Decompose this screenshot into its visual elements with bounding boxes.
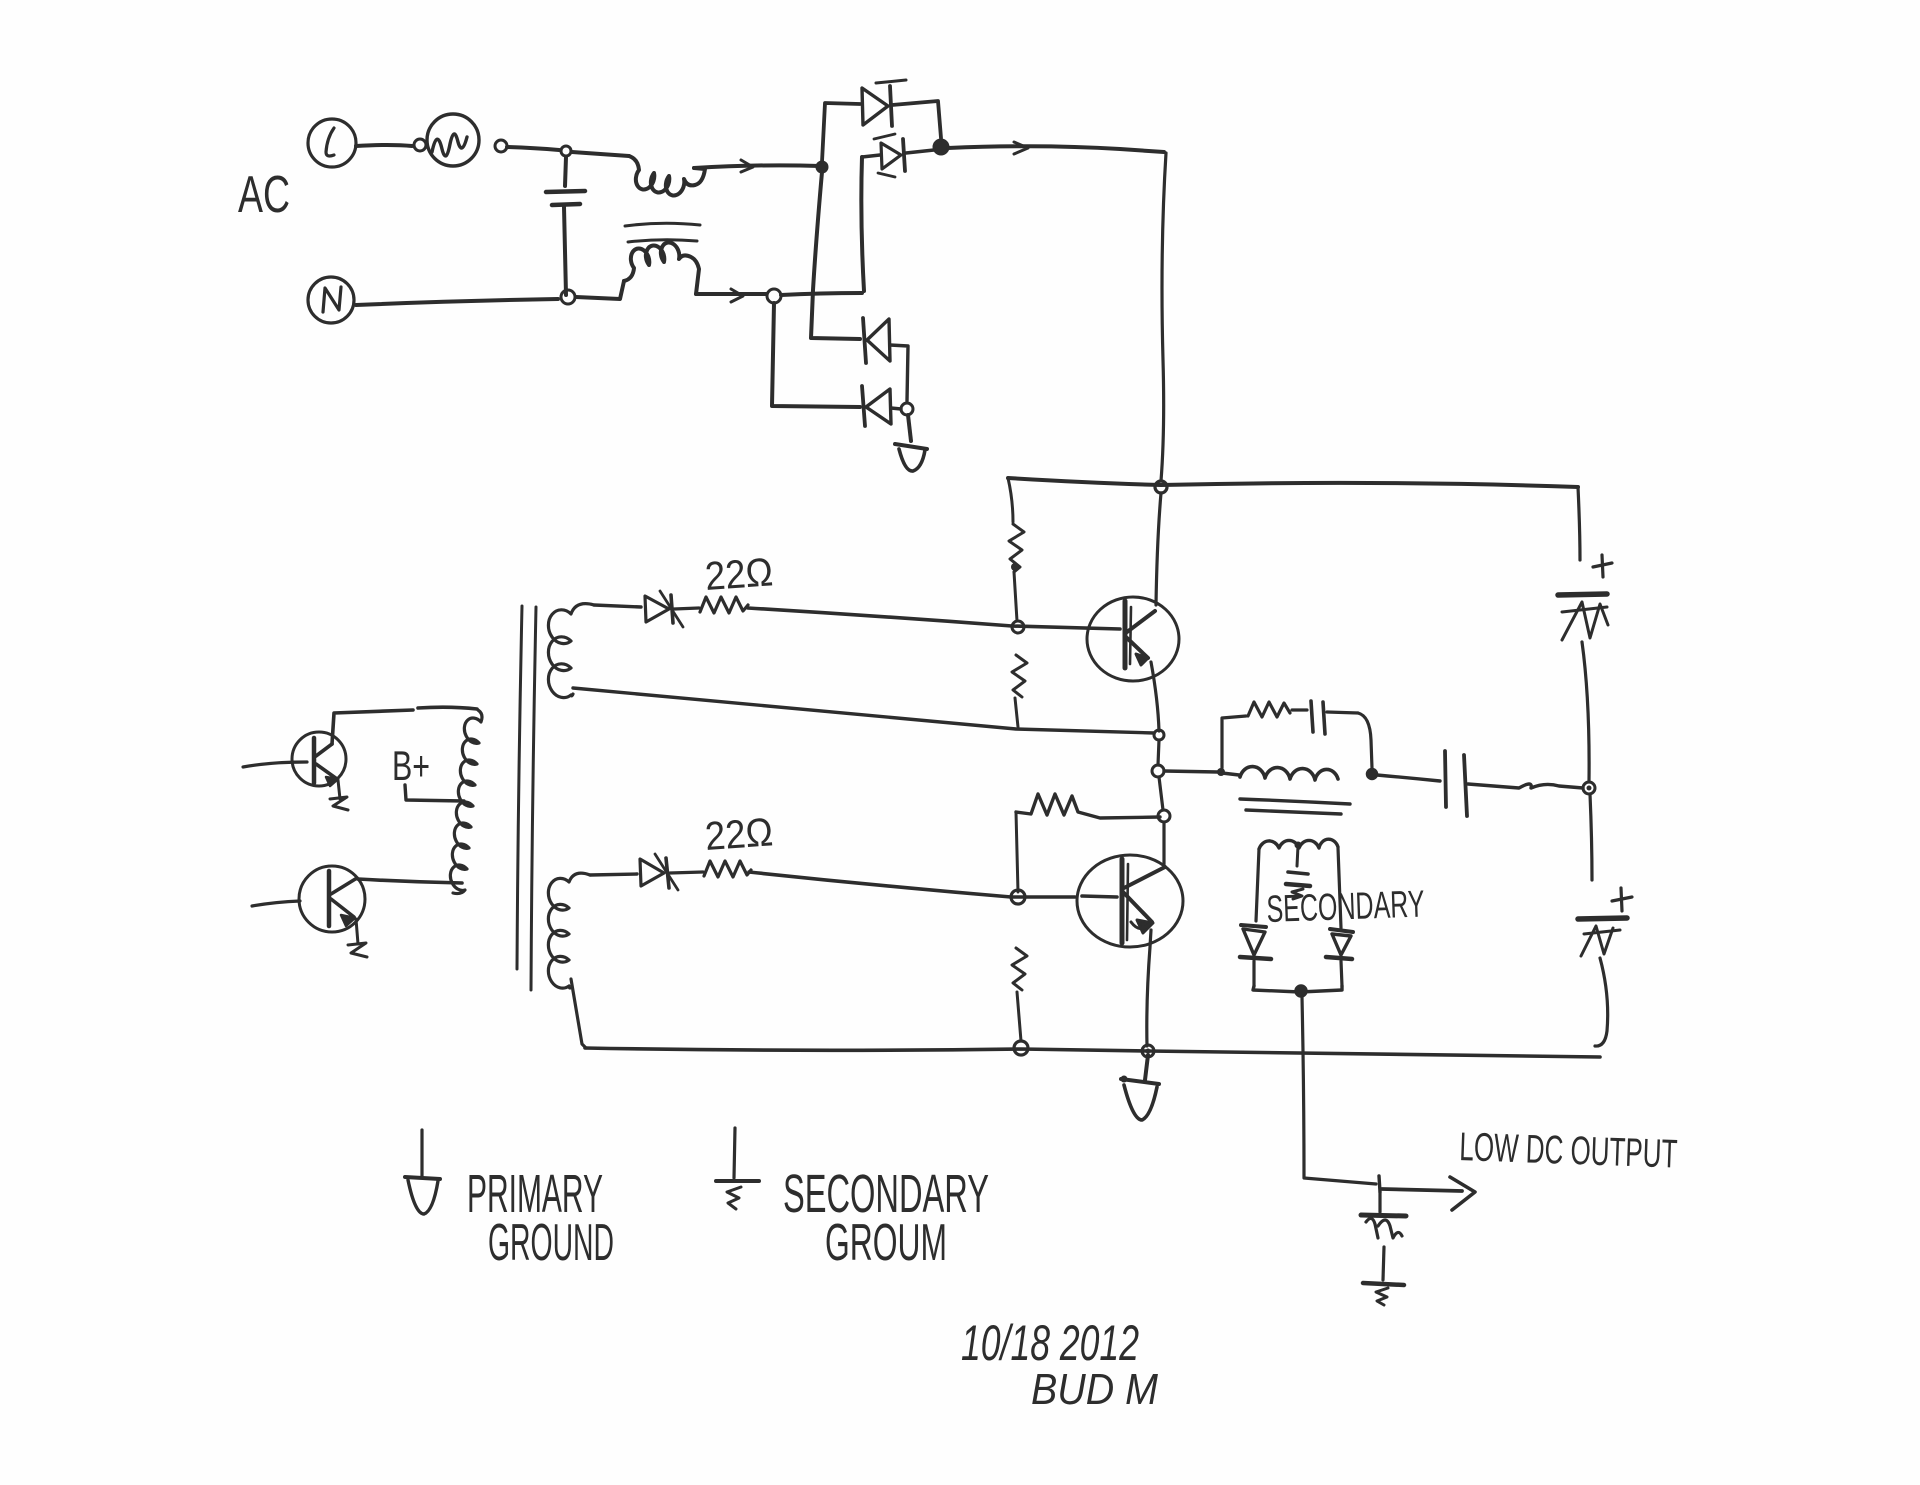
ground secondary legend symbol [716,1128,759,1209]
svg-text:10/18 2012: 10/18 2012 [961,1315,1139,1371]
transistor Q3 [292,732,348,810]
svg-text:GROUND: GROUND [488,1214,614,1272]
wire Q3 collector up and right to winding [332,707,477,744]
capacitor C4a electrolytic [1558,555,1612,782]
node Q1 base junction [1012,621,1024,633]
wire main vertical below rail [1156,493,1161,605]
wire Q4 collector to winding bottom [358,879,462,883]
wire vertical 735-770 [1158,740,1159,765]
label LOW DC OUTPUT [1459,1125,1678,1177]
diode D4 [862,386,901,426]
label SECONDARY legend [783,1164,989,1224]
wire W4 right leg [1338,848,1341,928]
wire junction to choke [572,152,629,156]
svg-text:B+: B+ [392,742,430,789]
wire main vertical bus [1161,153,1166,481]
diode D8 [1326,929,1353,986]
wire W3 top to D6 [590,874,637,875]
wire Q4 base lead [252,901,300,906]
svg-text:22Ω: 22Ω [704,810,775,859]
wire emitter Q2 down to bottom rail [1147,930,1151,1046]
capacitor C4b electrolytic [1578,794,1632,1046]
wire vertical 822-866 to Q2 collector [1162,822,1165,866]
wire D2 leg down to N wire [861,157,864,291]
svg-text:SECONDARY: SECONDARY [1266,884,1425,931]
node junction y815 [1158,810,1170,822]
resistor R3 [1016,794,1160,818]
node bridge top-left junction [817,162,827,172]
wire R2 to diagonal [1015,698,1018,727]
wire node770 to inductor [1164,768,1239,776]
label B+ [392,742,430,789]
label GROUND [488,1214,614,1272]
capacitor C1 across line [546,157,585,295]
wire DC+ to main vertical [948,146,1164,152]
node R1 bottom dot [1011,563,1019,571]
wire fuse to junction [507,147,559,150]
inductor L1 [1240,767,1338,780]
capacitor C3 snubber [1292,701,1358,734]
wire R6 to Q2 base [749,872,1117,897]
arrowhead on DC+ wire [1014,142,1028,154]
diode D6 [640,854,703,890]
wire B+ tap [405,785,464,801]
common-mode choke core [625,223,700,242]
wire choke bottom to bridge [696,292,766,296]
wire bottom rail [585,1048,1600,1057]
fuse F1 [427,114,507,166]
capacitor C2 coupling [1445,751,1583,816]
svg-text:GROUM: GROUM [825,1214,947,1272]
svg-text:LOW DC OUTPUT: LOW DC OUTPUT [1459,1125,1678,1177]
wire center tap down [1302,997,1376,1184]
node emitter bottom junction [1142,1045,1154,1057]
node Q2 base junction [1011,890,1025,904]
wire emitter Q1 down [1151,662,1159,731]
label 22ohm top [704,550,775,599]
wire up to D1 [822,103,860,162]
transformer T1 core [517,606,536,990]
resistor R7 snubber [1248,702,1290,717]
resistor R6 [704,861,751,877]
snubber right leg [1358,713,1372,768]
wire L to fuse [356,139,426,151]
node bottom rail left junction [1014,1041,1028,1055]
wire W2 bottom diagonal [573,688,1154,733]
wire vertical 777-815 [1159,777,1163,810]
transformer T2 core [1240,799,1350,814]
wire R5 to Q1 base [748,608,1120,629]
node output junction [1379,1176,1380,1192]
label 22ohm bottom [704,810,775,859]
primary winding W1 [450,710,482,894]
label GROUM [825,1214,947,1272]
wire W2 top to D5 [594,605,641,607]
wire R3 left corner down [1016,812,1018,892]
wire junction to D2 leg [781,293,862,295]
wire bridge left vertical from top junction [811,172,860,339]
common-mode choke top winding [629,156,705,195]
node right column junction [1583,782,1595,794]
label PRIMARY [467,1164,603,1224]
wire rectifier bottom [1253,986,1342,992]
wire rail corner down to R1 [1008,478,1013,522]
arrowhead on bottom wire [731,289,743,302]
wire to capacitor C2 [1377,775,1440,781]
terminal L [308,119,356,167]
transistor Q2 [1077,855,1183,947]
wire choke top to bridge [694,165,820,168]
diode D5 [645,591,699,627]
diode D1 [862,80,941,138]
diode D7 [1240,925,1271,986]
node N-side junction [767,289,781,303]
label BUD M [1031,1365,1158,1414]
W4 center tap ground [1286,842,1310,900]
wire W3 bottom down to rail [571,979,586,1048]
wire N junction down to D4 [772,303,860,407]
resistor R5 [700,597,748,613]
node inductor output [1367,769,1377,779]
wire N to junction [356,290,575,305]
resistor R4 [1012,948,1027,990]
resistor R1 [1009,524,1024,572]
ground main [1121,1055,1160,1120]
ground bridge [895,415,927,471]
node cap junction top [561,146,571,156]
wire R4 to bottom rail [1017,992,1021,1041]
node junction y733 [1154,730,1164,740]
wire output arrow [1382,1177,1475,1210]
wire Q3 base lead [243,762,307,767]
node junction y770 [1152,765,1164,777]
label SECONDARY [1266,884,1425,931]
label date [961,1315,1139,1371]
arrowhead on top wire [741,160,753,172]
wire R1 to base node [1014,572,1017,621]
node bridge negative junction [901,403,913,415]
common-mode choke bottom winding [624,243,699,294]
snubber left leg [1222,716,1246,768]
label AC [238,166,290,224]
resistor R2 [1012,655,1027,697]
node DC+ junction [934,140,948,154]
secondary winding W2 [548,604,594,698]
diode D2 [862,134,934,177]
wire W4 left leg [1256,849,1259,921]
wire junction to choke bottom [576,281,624,299]
wire top rail [1008,478,1578,487]
terminal N [308,277,354,323]
secondary winding W4 [1259,839,1338,849]
node center tap output [1296,986,1307,997]
node top rail junction [1155,481,1167,493]
secondary winding W3 [548,873,590,988]
capacitor C5 output [1361,1192,1406,1305]
svg-text:22Ω: 22Ω [704,550,775,599]
transistor Q4 [299,866,367,957]
wire right column top [1578,487,1580,560]
ground primary legend symbol [405,1130,440,1214]
transistor Q1 [1087,597,1179,681]
diode D3 [863,318,908,401]
svg-text:BUD M: BUD M [1031,1365,1158,1414]
svg-text:AC: AC [238,166,290,224]
